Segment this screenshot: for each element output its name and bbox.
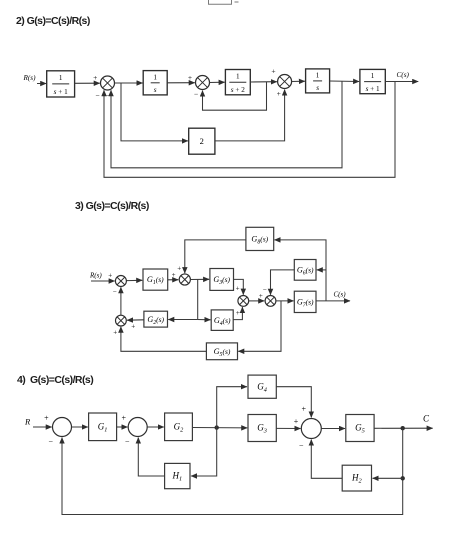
wire block 2 output to S3 bottom — [215, 90, 285, 141]
svg-text:s + 1: s + 1 — [54, 88, 68, 96]
sign - below S1 mid — [106, 91, 110, 100]
svg-text:+: + — [177, 265, 181, 273]
input label R(s) diagram 3 — [89, 272, 102, 280]
block H1 d4 — [165, 463, 190, 488]
wire tap T1 down to middle row — [197, 280, 199, 320]
block G1(s) — [143, 269, 168, 290]
svg-text:1: 1 — [59, 74, 63, 82]
svg-text:+: + — [271, 67, 275, 76]
wire S3 to B4 — [292, 80, 305, 82]
wire S2 to B3 — [210, 81, 225, 83]
wire G4 output to SC bottom — [233, 307, 242, 320]
svg-text:G4(s): G4(s) — [214, 316, 231, 327]
wire G1 to SB — [168, 279, 179, 281]
svg-text:G5(s): G5(s) — [214, 347, 231, 358]
wire G3 to S3 d4 — [276, 427, 300, 429]
wire G2 output to SE — [127, 319, 144, 321]
sign + at S2 left input — [188, 73, 192, 82]
svg-text:R(s): R(s) — [89, 272, 102, 280]
svg-text:s: s — [316, 84, 319, 92]
sign + at S3 left input — [271, 67, 275, 76]
svg-text:+: + — [122, 414, 127, 423]
block H2 d4 — [342, 465, 371, 491]
svg-text:G2: G2 — [174, 421, 185, 433]
wire B2 to S2 — [167, 82, 195, 84]
sign + at S3 left input d4 — [294, 417, 299, 426]
block B1 1/(s+1) — [47, 71, 75, 97]
svg-text:G4: G4 — [257, 381, 267, 393]
wire R(s) input arrow — [37, 83, 46, 85]
svg-text:G1(s): G1(s) — [147, 275, 164, 286]
block G7(s) — [294, 291, 316, 312]
summing junction SE — [116, 315, 127, 326]
wire SD to G7 with tap node T2 — [276, 300, 294, 302]
wire G8 output to SB top — [185, 240, 246, 273]
wire B3 to S3 with tap node — [250, 81, 276, 83]
summing junction SD — [265, 296, 276, 307]
wire B5 to C(s) output — [385, 81, 418, 83]
block B3 1/(s+2) — [225, 70, 250, 95]
input label R(s) — [23, 74, 37, 82]
svg-text:s + 2: s + 2 — [231, 86, 245, 94]
svg-text:G7(s): G7(s) — [297, 297, 314, 308]
svg-text:−: − — [299, 441, 304, 450]
wire tap T2 down to G5 input — [238, 301, 281, 351]
svg-text:3) G(s)=C(s)/R(s): 3) G(s)=C(s)/R(s) — [75, 200, 149, 212]
block B4 1/s — [306, 69, 330, 93]
svg-text:4) G(s)=C(s)/R(s): 4) G(s)=C(s)/R(s) — [17, 374, 93, 386]
svg-text:G2(s): G2(s) — [147, 315, 164, 326]
wire G7 to C(s) output — [316, 300, 350, 302]
input label R diagram 4 — [24, 417, 31, 427]
wire SA to G1 — [126, 279, 142, 281]
summing junction S3 d4 — [301, 419, 321, 439]
block G1 d4 — [89, 413, 117, 441]
block G6(s) — [294, 260, 316, 281]
svg-text:G6(s): G6(s) — [297, 266, 314, 277]
svg-text:2) G(s)=C(s)/R(s): 2) G(s)=C(s)/R(s) — [16, 15, 90, 27]
svg-text:G1: G1 — [98, 421, 108, 433]
wire S3 to G5 d4 — [321, 428, 345, 430]
svg-text:+: + — [236, 309, 240, 317]
svg-text:−: − — [113, 288, 117, 296]
block G3 d4 — [248, 415, 276, 442]
wire B1 to S1 — [75, 82, 100, 84]
sign + at S1 left input d4 — [44, 414, 49, 423]
sign + at SB top — [177, 265, 181, 273]
block G2 d4 — [165, 413, 193, 441]
svg-text:+: + — [302, 405, 307, 414]
svg-text:1: 1 — [236, 73, 240, 81]
svg-text:R: R — [24, 417, 31, 427]
wire tap down to block 2 input — [121, 83, 188, 141]
svg-text:1: 1 — [371, 72, 375, 80]
svg-text:H1: H1 — [171, 471, 182, 483]
sign + at SD left — [259, 292, 263, 300]
svg-text:G3(s): G3(s) — [213, 275, 230, 286]
wire S1 to B2 with tap node — [115, 82, 143, 84]
wire inner feedback B3-output to S2 — [203, 82, 267, 110]
block G4(s) — [211, 310, 233, 331]
wire output node down outer loop — [62, 428, 403, 514]
cropped box remnant from previous figure — [209, 0, 239, 4]
sign - below S3 d4 — [299, 441, 304, 450]
svg-text:G5: G5 — [355, 423, 365, 435]
output label C(s) diagram 3 — [334, 291, 347, 299]
sign + at S1 left input — [93, 73, 97, 82]
wire H1 output to S2 bottom — [138, 438, 164, 476]
svg-text:−: − — [95, 91, 99, 100]
wire tap to G6 input — [317, 269, 326, 271]
svg-text:+: + — [172, 271, 176, 279]
sign + at S2 left input d4 — [122, 414, 127, 423]
block G8(s) — [246, 227, 274, 250]
sign - below S1 d4 — [49, 438, 54, 447]
svg-text:H2: H2 — [351, 473, 363, 485]
wire R to S1 — [33, 426, 52, 428]
block G5 d4 — [346, 415, 374, 442]
svg-text:+: + — [236, 285, 240, 293]
summing junction SA — [115, 276, 126, 287]
block G3(s) — [210, 269, 234, 291]
output label C(s) — [397, 71, 410, 79]
svg-text:s + 1: s + 1 — [366, 85, 380, 93]
wire G5 to C output d4 — [374, 427, 433, 429]
block G5(s) — [206, 343, 237, 360]
wire node down to H1 input — [191, 428, 217, 477]
title: 4) G(s)=C(s)/R(s) — [17, 374, 93, 386]
summing junction S1 — [101, 76, 115, 90]
svg-text:2: 2 — [200, 136, 204, 146]
junction dot on output line — [401, 426, 405, 430]
summing junction S1 d4 — [53, 418, 72, 437]
wire S1 to G1 d4 — [72, 426, 88, 428]
block B5 1/(s+1) — [360, 69, 385, 93]
sign + at SB left — [172, 271, 176, 279]
svg-text:−: − — [263, 286, 267, 294]
title: 2) G(s)=C(s)/R(s) — [16, 15, 90, 27]
svg-text:−: − — [125, 438, 130, 447]
svg-text:G8(s): G8(s) — [251, 235, 268, 246]
wire output node up to G8 input — [275, 240, 327, 301]
junction dot at H2 tap — [401, 476, 405, 480]
summing junction SB — [179, 274, 190, 285]
block K value 2 — [189, 128, 215, 154]
svg-text:+: + — [113, 329, 117, 337]
wire SE up to SA bottom — [120, 287, 122, 315]
svg-text:+: + — [44, 414, 49, 423]
svg-text:+: + — [294, 417, 299, 426]
svg-text:s: s — [154, 86, 157, 94]
wire S2 to G2 d4 — [147, 426, 164, 428]
junction dot after G2 — [215, 425, 219, 429]
sign + at SC top — [236, 285, 240, 293]
wire middle row to G4 input — [198, 319, 211, 321]
wire G4 output to S3 top — [276, 387, 311, 418]
svg-text:−: − — [194, 90, 198, 99]
svg-text:R(s): R(s) — [23, 74, 37, 82]
sign - below S2 — [194, 90, 198, 99]
sign - at SD top — [263, 286, 267, 294]
svg-text:+: + — [93, 73, 97, 82]
svg-text:−: − — [106, 91, 110, 100]
sign + at SA left — [108, 272, 112, 280]
summing junction SC — [238, 296, 249, 307]
wire G5 output to SE bottom — [121, 327, 206, 352]
svg-text:C: C — [423, 414, 430, 424]
svg-text:C(s): C(s) — [397, 71, 410, 79]
wire middle feedback loop to S1 — [111, 81, 342, 168]
wire R(s) to SA — [91, 280, 115, 282]
wire tap to H2 input — [373, 477, 403, 479]
svg-text:+: + — [131, 323, 135, 331]
sign - below S2 d4 — [125, 438, 130, 447]
summing junction S2 d4 — [128, 418, 147, 437]
wire G6 output to SD top — [271, 270, 295, 295]
svg-text:C(s): C(s) — [334, 291, 347, 299]
summing junction S2 — [196, 76, 210, 90]
wire SC to SD — [249, 300, 265, 302]
wire middle row to G2 input — [168, 319, 197, 321]
svg-text:+: + — [277, 89, 281, 98]
wire B4 to B5 with tap node — [330, 80, 360, 83]
summing junction S3 — [278, 75, 292, 89]
wire G2 to G3 d4 — [192, 427, 247, 429]
wire SB to G3 with tap node T1 — [190, 278, 209, 280]
sign + at SC bottom — [236, 309, 240, 317]
sign + at S3 top d4 — [302, 405, 307, 414]
sign + at SE bottom — [113, 329, 117, 337]
svg-text:−: − — [49, 438, 54, 447]
block G4 d4 — [248, 375, 276, 398]
svg-text:+: + — [188, 73, 192, 82]
title: 3) G(s)=C(s)/R(s) — [75, 200, 149, 212]
wire node up to G4 input — [217, 387, 247, 428]
svg-text:G3: G3 — [257, 423, 267, 435]
sign - below SA — [113, 288, 117, 296]
svg-text:1: 1 — [316, 72, 320, 80]
sign + at SE right input — [131, 323, 135, 331]
block G2(s) — [144, 311, 168, 327]
block B2 1/s — [143, 71, 167, 95]
output label C d4 — [423, 414, 430, 424]
svg-text:+: + — [108, 272, 112, 280]
wire H2 output to S3 bottom — [311, 440, 342, 479]
wire G1 to S2 d4 — [117, 426, 128, 428]
wire G3 to SC top — [234, 279, 244, 294]
svg-text:1: 1 — [153, 73, 157, 81]
sign + below S3 — [277, 89, 281, 98]
wire outer feedback loop to S1 — [104, 82, 395, 178]
sign - below S1 left — [95, 91, 99, 100]
